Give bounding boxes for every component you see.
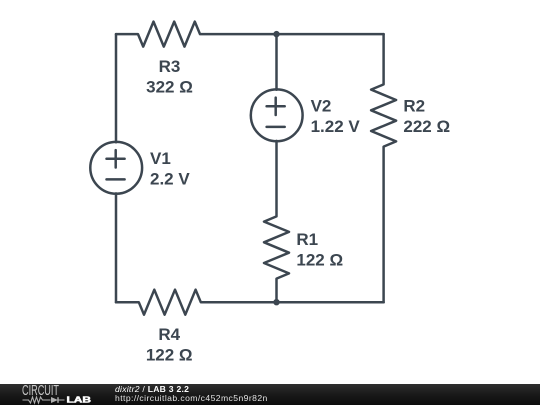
svg-text:2.2 V: 2.2 V (150, 170, 190, 189)
svg-text:R4: R4 (158, 325, 180, 344)
svg-text:R3: R3 (159, 57, 181, 76)
svg-text:322 Ω: 322 Ω (146, 77, 193, 96)
svg-text:V1: V1 (150, 149, 171, 168)
svg-text:122 Ω: 122 Ω (296, 251, 343, 270)
svg-text:V2: V2 (311, 97, 332, 116)
svg-text:222 Ω: 222 Ω (403, 117, 450, 136)
svg-text:122 Ω: 122 Ω (146, 346, 193, 365)
svg-text:1.22 V: 1.22 V (311, 117, 361, 136)
svg-text:LAB: LAB (67, 395, 92, 404)
svg-text:R2: R2 (403, 97, 425, 116)
svg-text:R1: R1 (296, 230, 318, 249)
